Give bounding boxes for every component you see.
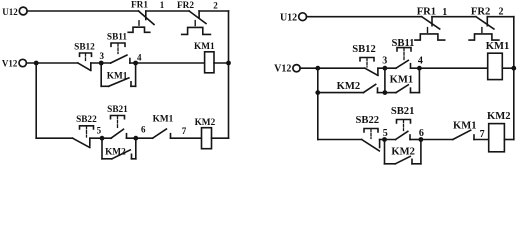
svg-text:2: 2 xyxy=(213,1,218,11)
thermal relay contact FR2 (NC, right diagram) xyxy=(469,7,499,41)
terminal U12 (left diagram) xyxy=(2,7,27,17)
pushbutton SB12 (NC stop, left diagram) xyxy=(74,42,95,70)
svg-text:SB12: SB12 xyxy=(352,44,376,55)
wire row2 SB12 to SB11 (right diagram) xyxy=(378,67,396,69)
thermal relay contact FR1 (NC, left diagram) xyxy=(128,1,154,33)
svg-text:3: 3 xyxy=(382,56,387,67)
wire left vertical branch (right diagram) xyxy=(317,68,319,139)
thermal relay contact FR1 (NC, right diagram) xyxy=(415,7,445,41)
svg-text:5: 5 xyxy=(383,128,388,139)
junction dot interlock branch (right diagram) xyxy=(315,90,320,95)
svg-text:KM2: KM2 xyxy=(487,111,511,122)
node 6 (left diagram) xyxy=(133,125,146,141)
svg-text:SB12: SB12 xyxy=(74,42,95,52)
svg-text:KM2: KM2 xyxy=(195,118,216,128)
pushbutton SB11 (NO start, right diagram) xyxy=(392,38,415,68)
terminal V12 (left diagram) xyxy=(2,59,27,69)
auxiliary contact KM2 self-holding (NO, left diagram) xyxy=(102,138,136,159)
svg-text:U12: U12 xyxy=(2,7,18,17)
coil KM2 (left diagram) xyxy=(195,118,229,149)
thermal relay contact FR2 (NC, left diagram) xyxy=(177,1,210,34)
wire row2 node4 to coil KM1 (right diagram) xyxy=(419,67,487,69)
svg-text:V12: V12 xyxy=(274,64,291,75)
node 3 (right diagram) xyxy=(382,56,387,71)
wire row3 node6 to KM1 contact (right diagram) xyxy=(421,139,453,141)
node 4 (right diagram) xyxy=(417,55,423,70)
pushbutton SB11 (NO start, left diagram) xyxy=(107,32,130,63)
node 3 (left diagram) xyxy=(99,51,105,66)
wire top rail between FR1 and FR2 (right diagram) xyxy=(432,16,476,18)
coil KM1 (right diagram) xyxy=(486,41,516,80)
wire top rail to right corner (right diagram) xyxy=(487,16,514,18)
wire row3 SB22 to SB21 (right diagram) xyxy=(380,139,396,141)
interlock contact KM1 (NO, row3, right diagram) xyxy=(453,121,477,140)
svg-text:KM2: KM2 xyxy=(391,146,415,157)
svg-text:KM1: KM1 xyxy=(453,121,477,132)
svg-text:FR2: FR2 xyxy=(177,1,194,11)
svg-text:7: 7 xyxy=(480,129,485,140)
svg-text:FR1: FR1 xyxy=(131,1,148,11)
junction dot V12 branch (right diagram) xyxy=(315,66,320,71)
junction dot V12 branch (left diagram) xyxy=(34,61,39,66)
node 6 (right diagram) xyxy=(419,128,424,142)
auxiliary contact KM2 self-holding (NO, right diagram) xyxy=(385,140,421,164)
svg-text:KM1: KM1 xyxy=(107,71,128,81)
svg-text:U12: U12 xyxy=(280,12,297,23)
node 5 (left diagram) xyxy=(97,125,105,140)
wire branch KM2 contact to mid dot (right diagram) xyxy=(378,92,385,94)
svg-text:KM1: KM1 xyxy=(194,42,215,52)
wire top rail to right corner (left diagram) xyxy=(199,10,228,12)
wire row3 from left vertical to SB22 (left diagram) xyxy=(36,137,72,139)
wire row3 SB21 to KM1 contact (left diagram) xyxy=(127,137,153,139)
wire top rail between FR1 and FR2 (left diagram) xyxy=(146,10,189,12)
contact KM2 (NO, parallel with SB12, right diagram) xyxy=(337,81,378,92)
wire node3 down to branch (right diagram) xyxy=(384,68,386,92)
wire interlock branch from vertical to KM2 contact (right diagram) xyxy=(318,92,364,94)
node 5 (right diagram) xyxy=(382,128,388,142)
wire row3 SB22 to SB21 (left diagram) xyxy=(90,137,111,139)
svg-text:KM1: KM1 xyxy=(486,41,510,52)
wire row2 node4 to coil KM1 (left diagram) xyxy=(136,62,205,64)
svg-text:SB21: SB21 xyxy=(391,106,415,117)
auxiliary contact KM1 self-holding (NO, right diagram) xyxy=(385,68,420,92)
pushbutton SB12 (NC stop, right diagram) xyxy=(352,44,378,76)
wire row2 from V12 to SB12 (right diagram) xyxy=(300,67,365,69)
wire row3 KM1 contact to node 7 and coil KM2 (right diagram) xyxy=(474,139,489,141)
wire top rail left segment (left diagram) xyxy=(27,10,138,12)
svg-text:SB22: SB22 xyxy=(76,115,97,125)
wire top rail left segment (right diagram) xyxy=(307,16,422,18)
svg-text:1: 1 xyxy=(160,0,165,10)
svg-text:KM1: KM1 xyxy=(390,74,414,85)
svg-text:KM1: KM1 xyxy=(153,115,174,125)
svg-text:KM2: KM2 xyxy=(105,147,126,157)
svg-text:KM2: KM2 xyxy=(337,81,361,92)
pushbutton SB22 (NC stop, right diagram) xyxy=(356,115,380,151)
terminal U12 (right diagram) xyxy=(280,12,307,23)
svg-text:SB21: SB21 xyxy=(107,105,128,115)
wire left vertical branch (left diagram) xyxy=(35,63,37,138)
svg-text:6: 6 xyxy=(419,128,424,139)
wire row2 SB11 to node 4 (left diagram) xyxy=(130,62,136,64)
pushbutton SB22 (NC stop, left diagram) xyxy=(73,115,97,148)
svg-text:SB22: SB22 xyxy=(356,115,380,126)
svg-text:3: 3 xyxy=(99,51,104,61)
auxiliary contact KM1 self-holding (NO, left diagram) xyxy=(101,63,135,86)
wire row3 from left vertical to SB22 (right diagram) xyxy=(318,139,362,141)
coil KM2 (right diagram) xyxy=(487,111,514,152)
wire row2 from V12 to SB12 (left diagram) xyxy=(26,62,77,64)
interlock contact KM1 (NO, row3, left diagram) xyxy=(153,115,174,139)
svg-text:5: 5 xyxy=(97,125,102,135)
svg-text:7: 7 xyxy=(182,126,187,136)
terminal V12 (right diagram) xyxy=(274,64,300,75)
svg-text:V12: V12 xyxy=(2,59,18,69)
coil KM1 (left diagram) xyxy=(194,42,231,73)
svg-text:4: 4 xyxy=(418,55,423,66)
node 4 (left diagram) xyxy=(133,53,142,66)
wire right rail (right diagram) xyxy=(513,17,515,140)
svg-text:4: 4 xyxy=(137,53,142,63)
wire row3 SB21 to node6 (right diagram) xyxy=(410,139,421,141)
pushbutton SB21 (NO start, left diagram) xyxy=(107,105,128,138)
svg-text:SB11: SB11 xyxy=(107,32,128,42)
wire right rail (left diagram) xyxy=(228,11,230,138)
pushbutton SB21 (NO start, right diagram) xyxy=(391,106,415,140)
svg-text:6: 6 xyxy=(141,125,146,135)
wire row2 SB12 to SB11 (left diagram) xyxy=(91,62,111,64)
wire row3 KM1 contact to node 7 and coil KM2 (left diagram) xyxy=(171,137,202,139)
wire row2 SB11 to node4 (right diagram) xyxy=(411,67,420,69)
junction dot below node 3 (right diagram) xyxy=(383,90,388,95)
